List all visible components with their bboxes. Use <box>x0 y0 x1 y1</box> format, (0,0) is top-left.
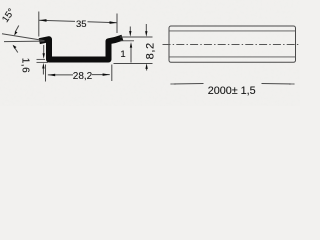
svg-text:1: 1 <box>120 49 125 60</box>
svg-text:28,2: 28,2 <box>73 71 93 82</box>
svg-text:8,2: 8,2 <box>144 42 156 59</box>
svg-text:35: 35 <box>76 19 87 30</box>
svg-text:2000± 1,5: 2000± 1,5 <box>208 85 256 97</box>
svg-text:1,6: 1,6 <box>19 58 30 73</box>
